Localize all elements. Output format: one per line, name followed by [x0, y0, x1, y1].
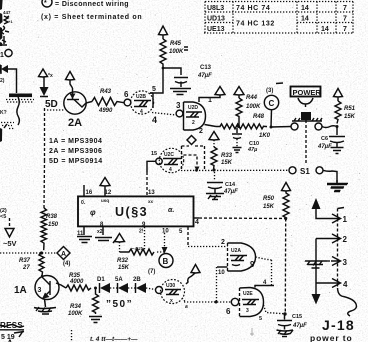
svg-text:15K: 15K	[221, 160, 233, 166]
capacitor C10 (under R48 wire)	[232, 128, 259, 153]
svg-text:14: 14	[301, 5, 309, 12]
svg-text:(4): (4)	[63, 261, 70, 267]
resistor R43	[92, 89, 124, 114]
svg-text:47µF: 47µF	[317, 144, 332, 150]
svg-text:U8L3: U8L3	[207, 5, 224, 12]
svg-text:R51: R51	[344, 106, 356, 112]
wire (dash-dot) R50 junction down to C15 junction	[284, 219, 286, 315]
svg-text:47µF: 47µF	[197, 73, 212, 79]
svg-text:U(§3: U(§3	[115, 205, 148, 219]
svg-text:2: 2	[343, 235, 348, 244]
wire U2D top to pin1 power	[199, 95, 220, 102]
svg-text:U2B: U2B	[136, 94, 146, 100]
ground at pin 8	[95, 238, 117, 244]
svg-text:usq: usq	[101, 198, 109, 203]
svg-text:R43: R43	[100, 89, 112, 95]
node: R38/R37 junction on dotted wire	[40, 251, 43, 254]
svg-text:74 HC 74: 74 HC 74	[236, 5, 270, 12]
ground below C6	[331, 148, 344, 154]
svg-text:C14: C14	[225, 182, 236, 188]
svg-text:47µ: 47µ	[247, 147, 258, 153]
arrowhead into node B	[162, 247, 168, 254]
node: R45 / C13 / pin5 junction	[162, 67, 165, 70]
node: R50 bottom / dashed wire	[284, 217, 287, 220]
pin 3 arrow	[331, 257, 348, 268]
wire from margin diode to chassis ground	[0, 65, 17, 94]
wire	[128, 287, 135, 289]
svg-text:U2E: U2E	[243, 291, 253, 297]
svg-text:R44: R44	[246, 95, 258, 101]
connector J-18 bracket	[338, 208, 345, 209]
wire (dotted) diode chain to gate U30 bubble	[146, 288, 156, 290]
svg-text:C15: C15	[292, 314, 302, 320]
sheet node C	[264, 88, 278, 127]
wire U2C input to U13 pin 13	[147, 161, 156, 172]
svg-text:φ: φ	[90, 208, 96, 217]
chassis ground (hatched) top-left	[0, 78, 34, 102]
wire (dotted) U2A pin10 down to bus	[216, 267, 218, 302]
svg-text:S1: S1	[300, 167, 310, 176]
wire (dotted) U2B output to node 3 bubble	[152, 113, 176, 116]
svg-text:*x: *x	[48, 73, 53, 79]
pin 4 wire (right side)	[194, 217, 200, 219]
wire node C junction to power connector	[271, 126, 291, 129]
diode D1	[97, 277, 110, 293]
junction on lower bus	[215, 301, 218, 304]
svg-text:UE13: UE13	[207, 26, 225, 33]
wire U2E output to C15 junction	[264, 305, 286, 314]
capacitor C14b / earth ground top right of J-18	[327, 180, 347, 192]
ground below R34	[89, 317, 102, 323]
svg-text:5: 5	[259, 316, 262, 322]
pin 10 stub into U2A	[217, 266, 228, 268]
wire (dotted) lower bus to U2E bubble	[184, 301, 231, 303]
ground below C14	[206, 194, 224, 200]
switch S1	[289, 167, 323, 176]
svg-text:1K0: 1K0	[259, 133, 271, 139]
svg-text:3: 3	[343, 258, 348, 267]
svg-text:14: 14	[301, 16, 309, 23]
svg-text:POWER: POWER	[293, 88, 322, 97]
svg-text:R45: R45	[170, 41, 182, 47]
svg-text:2: 2	[221, 239, 225, 246]
pin 11 stub + ground (bottom left)	[83, 227, 85, 236]
+5V triangle left of gate U2A	[191, 265, 200, 274]
+5V triangle above R44	[234, 87, 244, 99]
svg-text:5D = MPS0914: 5D = MPS0914	[49, 158, 103, 165]
svg-text:7: 7	[343, 5, 347, 12]
POWER label box	[291, 87, 322, 108]
-5V branch marks	[0, 208, 7, 220]
svg-text:7: 7	[343, 26, 347, 33]
scan edge smudge left, mid	[0, 128, 2, 142]
svg-text:3: 3	[38, 287, 42, 294]
svg-text:16: 16	[86, 190, 93, 196]
connector base hatching	[292, 118, 322, 121]
svg-text:UD13: UD13	[207, 16, 225, 23]
node B circle	[148, 254, 173, 276]
svg-text:27: 27	[22, 265, 30, 271]
diode 5D (pointing down)	[40, 77, 49, 97]
squiggle wire below triangle	[186, 273, 195, 284]
wire (dotted bus) to S1	[181, 169, 289, 171]
svg-text:R33: R33	[221, 153, 233, 159]
capacitor C13	[174, 65, 212, 87]
wire (dashed) POWER square down to S1	[305, 120, 307, 164]
svg-text:R50: R50	[263, 196, 275, 202]
resistor R48	[216, 114, 271, 139]
svg-text:α.: α.	[168, 207, 174, 214]
pin 4 stub on U2E top	[255, 286, 274, 288]
svg-text:a: a	[185, 304, 188, 310]
node: R44/R48 junction	[237, 125, 240, 128]
svg-text:9: 9	[250, 260, 255, 269]
svg-text:2A = MPS3906: 2A = MPS3906	[49, 148, 102, 155]
svg-text:2B: 2B	[133, 277, 141, 283]
svg-text:C: C	[269, 99, 275, 108]
svg-text:R34: R34	[70, 304, 82, 310]
wire right contact to R51/C6 junction	[322, 126, 337, 128]
svg-text:R32: R32	[117, 258, 129, 264]
stray mark right of table row2	[184, 47, 188, 50]
resistor R34	[68, 288, 99, 317]
wire	[110, 287, 117, 289]
svg-text:47µF: 47µF	[223, 189, 238, 195]
pin 2 arrow	[316, 234, 348, 244]
svg-text:2: 2	[199, 128, 203, 135]
svg-text:100K: 100K	[68, 311, 83, 317]
op-gate U2E (schmitt)	[240, 288, 264, 317]
op-gate U2B (schmitt inverter)	[130, 91, 153, 115]
svg-text:A: A	[7, 339, 13, 342]
svg-text:1A = MPS3904: 1A = MPS3904	[49, 138, 102, 145]
faint bottom handwriting fragments	[90, 328, 254, 342]
node: R33 bottom on dotted bus	[212, 168, 215, 171]
op-gate U2A	[228, 243, 256, 271]
wire (dotted) U30 output elbow	[182, 298, 186, 302]
svg-text:4: 4	[169, 167, 172, 173]
svg-text:10: 10	[218, 270, 225, 276]
op-gate U2D (schmitt)	[184, 102, 206, 130]
unreadable margin scribbles left edge	[2, 10, 14, 45]
pin 16 stub (top)	[83, 185, 85, 196]
dotted column bottom-left	[71, 330, 73, 342]
gate U2B input bubble	[124, 99, 131, 106]
capacitor C15	[277, 314, 307, 330]
wire (dashed) pin 4 to R50 bottom	[199, 217, 286, 220]
svg-text:(7): (7)	[148, 269, 155, 275]
svg-text:15K: 15K	[344, 114, 356, 120]
off-sheet arrow (down, filled) below pin 4	[312, 283, 321, 305]
svg-text:15K: 15K	[263, 204, 275, 210]
svg-text:74 HC 132: 74 HC 132	[236, 21, 275, 28]
resistor R38	[41, 208, 59, 250]
svg-text:x: x	[170, 298, 173, 304]
svg-text:B: B	[163, 257, 169, 266]
wire (wavy) down from chassis ground	[17, 97, 20, 125]
resistor R32	[117, 249, 154, 271]
svg-text:6: 6	[226, 307, 231, 316]
diode (left margin, pointing left)	[1, 65, 8, 73]
stray dash below table	[276, 82, 283, 85]
svg-text:4: 4	[343, 280, 348, 289]
connector contact circle right	[315, 123, 322, 130]
svg-text:U30: U30	[166, 283, 175, 289]
svg-text:10: 10	[162, 229, 169, 235]
svg-text:D1: D1	[97, 277, 105, 283]
ground (small earth, left margin)	[1, 123, 14, 129]
svg-text:15K: 15K	[118, 265, 130, 271]
capacitor C6	[317, 127, 345, 151]
ground below C13	[170, 89, 191, 95]
svg-text:RESS: RESS	[0, 321, 23, 330]
wire (dotted) 5D to 2A base	[47, 109, 64, 111]
earth ground feeding pin 3	[305, 261, 331, 268]
svg-text:∼4U1ₓ: ∼4U1ₓ	[131, 246, 145, 251]
svg-text:t. 4 tt—t——+—: t. 4 tt—t——+—	[90, 336, 138, 342]
transistor Q 2A	[64, 88, 92, 129]
dashed box	[182, 146, 205, 170]
wire (dotted) U2A output wanders right/down	[256, 257, 272, 285]
wire (dashed) 5D node down to R38	[43, 108, 46, 208]
svg-text:K?: K?	[0, 110, 7, 116]
svg-text:13: 13	[148, 190, 155, 196]
wire pin2 down to pin4	[315, 239, 317, 284]
wire (dashed) U13 bottom pin to gate U2A	[187, 227, 189, 247]
svg-text:3: 3	[246, 308, 249, 314]
svg-text:3: 3	[176, 101, 181, 110]
svg-text:2: 2	[192, 120, 195, 126]
svg-text:12: 12	[105, 190, 112, 196]
resistor R44	[236, 95, 261, 127]
svg-text:4: 4	[140, 109, 143, 115]
bottom-left OIL PRESS text	[0, 321, 24, 342]
svg-text:0.: 0.	[81, 200, 86, 206]
wire (dotted) R32 to node B arrow	[157, 251, 165, 253]
svg-text:1: 1	[208, 97, 212, 104]
svg-text:2A: 2A	[68, 117, 82, 129]
sheet node A (diamond)	[57, 247, 70, 268]
capacitor C14	[207, 172, 238, 195]
wire (dotted) pin 10 down to node B	[164, 233, 166, 247]
svg-text:xx: xx	[148, 199, 154, 204]
svg-text:R37: R37	[19, 258, 31, 264]
sheet-continuation circle top-left	[0, 49, 12, 59]
svg-text:15: 15	[151, 151, 157, 157]
svg-text:= Disconnect wiring: = Disconnect wiring	[55, 1, 129, 8]
gate U2D input bubble	[176, 110, 183, 117]
node C stem junction	[270, 126, 273, 129]
svg-text:R48: R48	[253, 114, 265, 120]
callout squiggle to J-18 label	[344, 297, 357, 317]
diamond node (above dashed box)	[187, 136, 196, 145]
+5V power triangle above R45	[159, 26, 168, 39]
wire S1 to earth ground	[323, 170, 337, 182]
gate U30 input bubble	[156, 287, 163, 294]
+5V triangle above R33	[209, 132, 219, 141]
junction dot on bus	[195, 169, 198, 172]
pin 8 stub + ground	[102, 227, 104, 236]
op-gate U2C (schmitt, round)	[159, 148, 183, 173]
svg-text:U2A: U2A	[231, 248, 241, 254]
wire (dotted) across to diamond A	[0, 252, 57, 254]
+5V triangle below IC	[115, 234, 125, 243]
svg-text:2): 2)	[0, 78, 5, 84]
svg-text:(3): (3)	[266, 88, 273, 94]
svg-text:100K: 100K	[246, 104, 261, 110]
svg-text:J-18: J-18	[322, 317, 355, 333]
+5V triangle above transistor 2A emitter	[66, 72, 75, 89]
resistor R37	[19, 253, 44, 276]
svg-text:C6: C6	[321, 136, 328, 142]
svg-text:7: 7	[343, 16, 347, 23]
resistor R45	[160, 39, 184, 67]
resistor R51	[335, 101, 356, 124]
diode 5A	[115, 277, 128, 293]
svg-text:14: 14	[321, 26, 329, 33]
wire (dotted) pin 9 down	[144, 227, 146, 250]
svg-text:5A: 5A	[115, 277, 123, 283]
diode 2B	[133, 277, 146, 293]
svg-text:U2C: U2C	[164, 152, 174, 158]
svg-text:1: 1	[343, 215, 348, 224]
svg-text:1A: 1A	[14, 285, 27, 296]
ground below C15 (sketchy)	[277, 330, 294, 337]
svg-text:C13: C13	[200, 65, 212, 71]
earth ground right of S1	[327, 184, 348, 191]
gate U2E input bubble	[231, 298, 238, 305]
svg-text:4000: 4000	[69, 279, 84, 285]
+5V triangle for U2D pin1	[215, 87, 225, 96]
svg-text:4: 4	[195, 219, 199, 226]
svg-text:4990: 4990	[98, 108, 113, 114]
svg-text:+1: +1	[8, 19, 13, 24]
svg-text:5D: 5D	[45, 99, 58, 110]
node: C15 junction	[283, 312, 286, 315]
+5V triangle (top of left area)	[39, 69, 48, 77]
IC pinout table	[204, 2, 354, 34]
scan edge smudge top-left	[0, 0, 3, 46]
pin 4 arrow	[316, 279, 348, 290]
svg-text:U2D: U2D	[188, 105, 198, 111]
off-sheet arrow (up, filled) feeding pin 1	[312, 198, 332, 219]
wire (dashed) to -5V	[9, 218, 11, 228]
wire (dotted) to gate U2A top input	[188, 246, 228, 248]
connector contact circle left	[291, 123, 298, 130]
wire U2D output to R44 junction	[205, 125, 217, 127]
svg-text:5: 5	[152, 86, 156, 93]
ground at pin 11	[77, 237, 92, 243]
svg-text:447: 447	[3, 10, 11, 15]
svg-text:150: 150	[48, 222, 59, 228]
wire junction to C13	[163, 68, 181, 75]
+5V triangle above R50	[282, 183, 291, 192]
transistor type legend	[49, 138, 103, 165]
connector contact (black square)	[301, 112, 311, 120]
svg-text:47µF: 47µF	[292, 323, 307, 329]
resistor R33	[211, 140, 233, 170]
svg-text:”50”: ”50”	[106, 299, 133, 310]
svg-text:1: 1	[0, 52, 4, 59]
+5V triangle at pin 12	[100, 178, 110, 197]
svg-text:*: *	[44, 0, 47, 7]
node: R35/R34/diode junction	[94, 287, 97, 290]
svg-text:<5: <5	[0, 214, 6, 220]
note line 1: (*) = Disconnect wiring	[42, 0, 129, 8]
op-gate U30 (schmitt, round)	[161, 280, 185, 305]
resistor R50	[263, 191, 289, 220]
svg-text:(x) = Sheet terminated on: (x) = Sheet terminated on	[41, 14, 142, 21]
IC U13	[78, 196, 194, 226]
node: R51/C6 junction	[336, 125, 339, 128]
wire 1A emitter to ground	[45, 299, 46, 307]
svg-text:100K: 100K	[169, 49, 184, 55]
gate U2C input bubble	[156, 158, 162, 164]
svg-text:A: A	[61, 251, 66, 258]
wire (dashed) U2C output loop to dotted bus	[184, 155, 198, 168]
arrowhead into bus	[195, 167, 200, 172]
svg-text:power to: power to	[310, 333, 353, 342]
-5V triangle (down)	[5, 229, 14, 238]
wire 1A collector to R35	[56, 283, 66, 288]
wire gate U2B top to pin5 stub	[150, 92, 153, 94]
ground below 1A (sketchy)	[34, 307, 56, 314]
transistor Q 1A	[14, 275, 59, 300]
wire R45 junction down to gate pin 5	[150, 68, 163, 93]
+5V triangle above R51	[334, 89, 343, 102]
pin 1 arrow	[331, 214, 348, 224]
svg-text:4: 4	[152, 115, 157, 125]
svg-text:2!: 2!	[139, 229, 144, 235]
wire (dotted) triangle stem to R32	[119, 242, 121, 252]
svg-text:x2: x2	[97, 229, 103, 235]
resistor R35	[66, 273, 91, 291]
svg-text:6: 6	[124, 90, 129, 99]
